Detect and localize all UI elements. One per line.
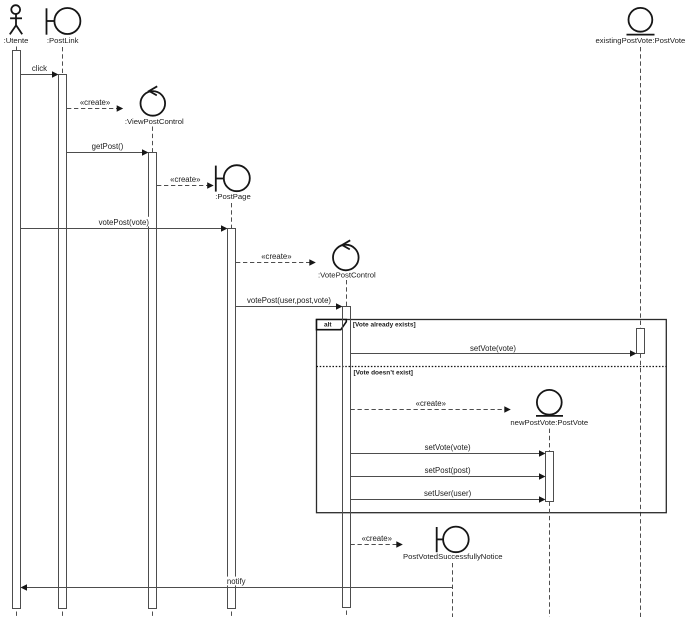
svg-text:[Vote doesn’t exist]: [Vote doesn’t exist]: [354, 369, 413, 376]
svg-text:[Vote already exists]: [Vote already exists]: [353, 322, 416, 329]
lifeline existingPostVote dashed top: [640, 47, 642, 329]
alt fragment frame: [317, 320, 667, 513]
activation ViewPostControl: [149, 153, 157, 609]
svg-text:«create»: «create»: [416, 399, 447, 408]
svg-text:notify: notify: [227, 577, 246, 586]
svg-text:votePost(vote): votePost(vote): [99, 218, 150, 227]
svg-text:click: click: [32, 64, 47, 73]
lifeline newPostVote dashed bottom: [549, 502, 551, 618]
activation PostPage: [228, 229, 236, 609]
message setVote(vote) to existingPostVote: [351, 344, 637, 357]
boundary PostPage symbol: [216, 165, 250, 191]
lifeline PostPage dashed top: [231, 203, 233, 229]
activation existingPostVote: [637, 329, 645, 354]
lifeline PostVotedSuccessfullyNotice dashed: [452, 563, 454, 617]
svg-text::PostPage: :PostPage: [215, 192, 250, 201]
alt pentagon label: [317, 320, 347, 330]
lifeline PostLink bottom dash: [62, 612, 64, 618]
message votePost(user,post,vote): [236, 296, 343, 310]
svg-text:getPost(): getPost(): [92, 142, 124, 151]
message click: [21, 64, 59, 78]
message create PostPage: [157, 175, 214, 189]
message setPost(post): [351, 466, 546, 480]
lifeline ViewPostControl bottom dash: [152, 612, 154, 618]
entity existingPostVote symbol: [627, 8, 655, 35]
svg-text:votePost(user,post,vote): votePost(user,post,vote): [247, 296, 331, 305]
message votePost(vote) line: [21, 225, 228, 231]
svg-text:«create»: «create»: [362, 534, 393, 543]
lifeline Utente bottom dash: [16, 612, 18, 618]
message create ViewPostControl: [67, 98, 123, 112]
svg-text::PostLink: :PostLink: [47, 36, 79, 45]
activation Utente: [13, 51, 21, 609]
message create VotePostControl: [236, 252, 316, 266]
svg-text:existingPostVote:PostVote: existingPostVote:PostVote: [596, 36, 686, 45]
message getPost(): [67, 142, 149, 156]
svg-text:«create»: «create»: [170, 175, 201, 184]
svg-text::Utente: :Utente: [4, 36, 29, 45]
activation VotePostControl: [343, 307, 351, 608]
lifeline Utente stub: [16, 47, 18, 51]
message notify return line: [21, 584, 453, 590]
label notify with white box: [227, 577, 247, 586]
message create PostVotedSuccessfullyNotice: [351, 534, 403, 548]
lifeline PostPage bottom dash: [231, 612, 233, 618]
control VotePostControl symbol: [333, 240, 359, 270]
activation newPostVote: [546, 452, 554, 502]
message setVote(vote) to newPostVote: [351, 443, 546, 457]
lifeline existingPostVote dashed bottom: [640, 354, 642, 618]
boundary PostVotedSuccessfullyNotice symbol: [437, 527, 469, 553]
lifeline VotePostControl dashed top: [346, 280, 348, 307]
svg-text:«create»: «create»: [80, 98, 111, 107]
actor Utente symbol: [10, 5, 22, 34]
lifeline VotePostControl bottom dash: [346, 611, 348, 618]
svg-text:«create»: «create»: [261, 252, 292, 261]
message create newPostVote: [351, 399, 511, 413]
svg-text:newPostVote:PostVote: newPostVote:PostVote: [510, 418, 588, 427]
svg-text::VotePostControl: :VotePostControl: [318, 271, 376, 280]
svg-text:PostVotedSuccessfullyNotice: PostVotedSuccessfullyNotice: [403, 552, 503, 561]
message setUser(user): [351, 489, 546, 503]
svg-text:setUser(user): setUser(user): [424, 489, 472, 498]
svg-text:setPost(post): setPost(post): [425, 466, 471, 475]
svg-text::ViewPostControl: :ViewPostControl: [125, 117, 184, 126]
svg-text:alt: alt: [324, 322, 332, 329]
svg-text:setVote(vote): setVote(vote): [470, 344, 516, 353]
activation PostLink: [59, 75, 67, 609]
svg-text:setVote(vote): setVote(vote): [425, 443, 471, 452]
lifeline PostLink dashed top: [62, 47, 64, 75]
label votePost(vote) with white box: [98, 217, 152, 227]
boundary PostLink symbol: [47, 8, 81, 35]
control ViewPostControl symbol: [141, 86, 166, 115]
lifeline ViewPostControl dashed top: [152, 127, 154, 153]
lifeline newPostVote dashed top: [549, 429, 551, 452]
entity newPostVote symbol: [536, 390, 563, 416]
alt divider dotted: [317, 366, 667, 368]
